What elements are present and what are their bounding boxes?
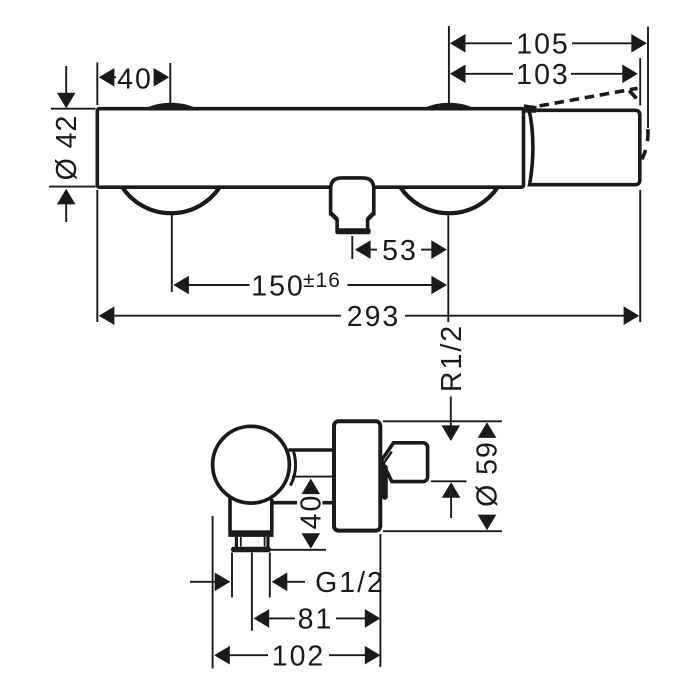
svg-text:±16: ±16 (303, 269, 341, 292)
svg-text:150: 150 (251, 270, 305, 302)
svg-text:105: 105 (516, 29, 570, 61)
svg-text:40: 40 (296, 494, 328, 530)
svg-text:Ø 59: Ø 59 (472, 441, 504, 507)
svg-text:Ø 42: Ø 42 (51, 115, 83, 181)
svg-text:53: 53 (382, 235, 418, 267)
svg-text:R1/2: R1/2 (436, 324, 468, 392)
svg-text:81: 81 (298, 604, 334, 636)
svg-text:103: 103 (516, 59, 570, 91)
svg-text:G1/2: G1/2 (315, 567, 385, 599)
svg-text:102: 102 (272, 641, 326, 673)
svg-text:293: 293 (347, 301, 401, 333)
svg-text:40: 40 (117, 63, 153, 95)
